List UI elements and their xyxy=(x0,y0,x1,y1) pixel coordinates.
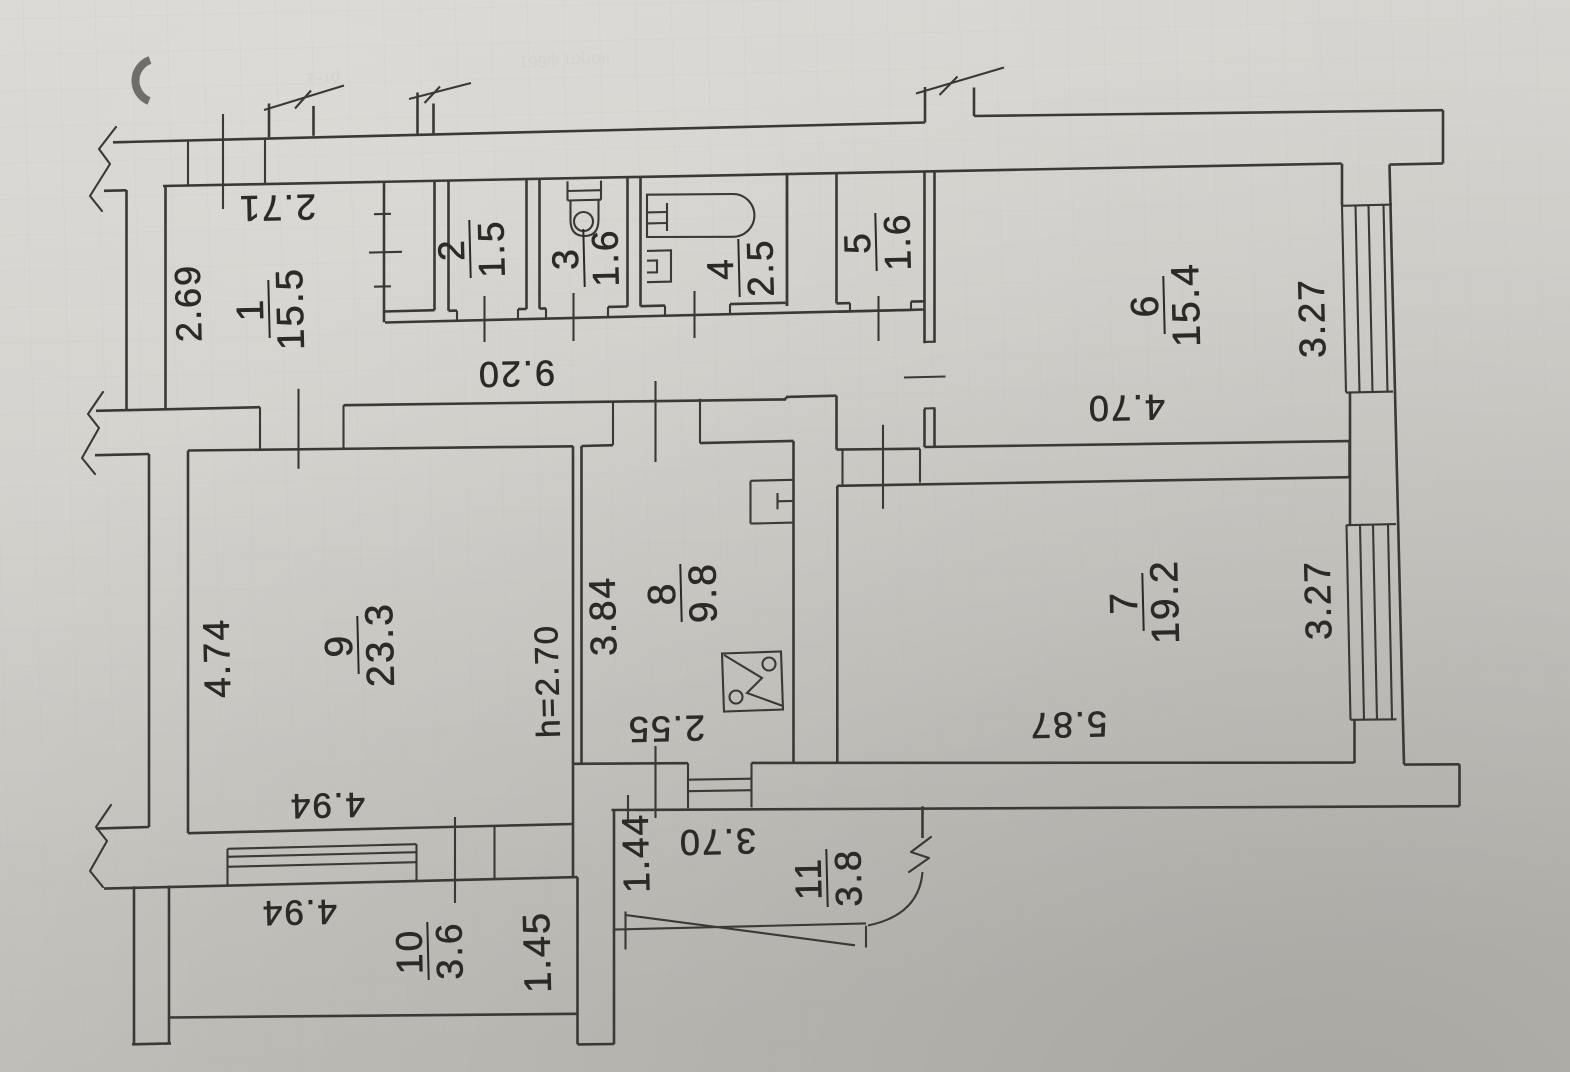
wall: balcony 10 left inner face xyxy=(168,886,171,1045)
door: room 1-room 9 jambs and tick xyxy=(260,389,344,469)
window: room 7 east window xyxy=(1347,524,1397,720)
wall: closet bottom line xyxy=(384,310,435,311)
wall: closet right line xyxy=(433,181,436,311)
svg-text:2.5: 2.5 xyxy=(739,238,781,297)
wall: room 2 right line xyxy=(525,179,528,309)
label: dimension 4.74 xyxy=(196,618,239,699)
fixture: toilet tank xyxy=(568,181,602,201)
wall: room 7 left inner face xyxy=(836,486,839,763)
svg-text:4.94: 4.94 xyxy=(260,892,337,933)
mark: faint ghost handwriting xyxy=(305,50,611,88)
svg-text:4.94: 4.94 xyxy=(288,785,365,826)
window: balcony 11 sill line xyxy=(614,923,867,929)
svg-text:23.3: 23.3 xyxy=(358,601,403,687)
svg-text:1.5: 1.5 xyxy=(470,219,512,278)
door: room 4 jambs and tick xyxy=(665,291,730,338)
wall: NE corner pilaster xyxy=(1390,110,1444,164)
wall: rooms 6/7 wall upper line (room 6 bottom) xyxy=(925,441,1350,447)
svg-text:3.27: 3.27 xyxy=(1291,278,1334,359)
fixture: bath mixer xyxy=(647,203,667,231)
wall: cap at left wall break xyxy=(96,409,166,411)
svg-text:19.2: 19.2 xyxy=(1143,558,1188,644)
break: zigzag top-left wall xyxy=(90,127,116,211)
wall: room 3 right line xyxy=(626,177,629,307)
wall: top facade outer line (right section) xyxy=(974,110,1443,116)
niche: riser tee symbol xyxy=(778,493,794,509)
svg-text:1.6: 1.6 xyxy=(584,228,626,287)
svg-text:4: 4 xyxy=(700,257,742,281)
wall: SE corner pilaster xyxy=(1404,764,1460,806)
door: room 8-balcony 11 jambs, threshold and tick xyxy=(656,746,752,818)
svg-text:9.8: 9.8 xyxy=(681,561,725,623)
wall: cap lower-left wall bottom xyxy=(96,827,149,829)
tick: dimension 4.94/1.45 xyxy=(454,817,456,903)
wall: closet left line xyxy=(383,182,386,323)
wall: room 7 right inner face below window xyxy=(1353,720,1356,763)
label: room 1 number/area xyxy=(229,266,313,351)
svg-text:4.74: 4.74 xyxy=(196,618,239,699)
label: ceiling height h=2.70 xyxy=(527,624,567,739)
window: room 9 south window xyxy=(228,844,417,885)
wall: room 4 left line xyxy=(639,177,642,307)
label: dimension 3.70 xyxy=(677,821,756,864)
fixture: kitchen stove/sink in room 8 xyxy=(722,652,783,712)
wall: room 5 door sill line xyxy=(838,310,917,312)
label: room 3 number/area xyxy=(544,228,626,288)
svg-text:чσηστ ψ661: чσηστ ψ661 xyxy=(519,50,611,71)
wall: room 8 top lower line with door opening xyxy=(582,441,794,446)
label: room 4 number/area xyxy=(699,238,781,298)
wall: NE pier at room 6 xyxy=(1341,164,1344,206)
svg-text:3.8: 3.8 xyxy=(827,848,869,907)
wall: corridor top line xyxy=(385,310,925,323)
door: corridor-room 8 jambs and tick xyxy=(613,381,700,462)
wall: top facade inner line xyxy=(163,164,1342,187)
wall: balcony 10 left wall bottom cap xyxy=(132,1042,171,1046)
label: room 5 number/area xyxy=(836,212,918,272)
wall: room 3 left line xyxy=(538,179,541,309)
label: room 2 number/area xyxy=(430,219,512,279)
wall: divider rooms 10/11 left line xyxy=(576,877,579,1044)
label: room 8 number/area xyxy=(640,561,725,624)
jamb: balcony 11 opening right xyxy=(865,926,867,948)
door: corridor-room 7 jambs and tick xyxy=(843,425,921,509)
svg-text:3.27: 3.27 xyxy=(1297,560,1340,641)
wall: rooms 9/8 wall right line (room 8 left) xyxy=(580,446,583,763)
svg-text:7: 7 xyxy=(1103,590,1147,615)
wall: top facade outer line (left section) xyxy=(113,123,925,143)
wall: room 9 bottom inner line xyxy=(188,824,573,833)
label: dimension 4.94 lower xyxy=(260,892,337,933)
wall: room 2 left line xyxy=(447,180,450,310)
label: dimension 3.84 xyxy=(582,576,625,657)
label: dimension 1.44 xyxy=(615,813,658,894)
door: room 5 jambs and tick xyxy=(850,296,911,341)
wall: room 8 bottom inner line with door opening xyxy=(573,763,1355,764)
label: dimension 1.45 xyxy=(516,911,560,994)
wall: divider rooms 10/11 right line (balcony 11 left wall) xyxy=(613,810,616,1044)
fixture: bathtub xyxy=(647,194,754,237)
break: zigzag mid-left wall xyxy=(82,392,103,474)
label: dimension 4.94 upper xyxy=(288,785,365,826)
svg-text:2: 2 xyxy=(431,238,473,262)
wall: east outer face xyxy=(1390,165,1405,765)
svg-text:ρт−ε: ρт−ε xyxy=(305,69,341,89)
wall: room 4 bottom with door opening xyxy=(641,303,786,306)
wall: room 9 left inner face xyxy=(187,451,190,834)
wall: rooms 1/9 wall upper line (west part) xyxy=(166,407,261,409)
svg-text:2.71: 2.71 xyxy=(237,187,316,230)
svg-text:h=2.70: h=2.70 xyxy=(527,624,567,739)
wall: bottom outer line / balcony 11 top xyxy=(612,806,1460,810)
tick: dimension 1.44 end xyxy=(627,795,629,822)
label: dimension 2.69 (room 1) xyxy=(167,263,210,342)
wall: SW facade outer line (balcony 10 top) xyxy=(104,877,578,889)
svg-text:4.70: 4.70 xyxy=(1086,387,1165,430)
svg-text:3.84: 3.84 xyxy=(582,576,625,657)
wall: room 8 right inner face xyxy=(792,441,795,763)
wall: room 2 bottom with door opening xyxy=(449,309,527,311)
jamb: opening right of room 9 window xyxy=(493,826,495,880)
label: dimension 3.27 (room 6) xyxy=(1291,278,1334,359)
wall: balcony 10 bottom edge xyxy=(168,1014,578,1018)
label: dimension 3.27 (room 7) xyxy=(1297,560,1340,641)
niche: duct on room 8 right wall xyxy=(751,480,794,524)
mark: dark crescent top-left xyxy=(135,60,150,101)
wall: left outer face (upper) xyxy=(104,190,127,410)
label: room 11 number/area xyxy=(787,848,869,908)
svg-text:3.70: 3.70 xyxy=(677,821,756,864)
wall: room 5 left line xyxy=(835,173,838,304)
door: balcony 11 swing arc xyxy=(868,872,923,926)
svg-text:1.45: 1.45 xyxy=(516,911,560,994)
wall stub: balcony 11 right with break xyxy=(909,806,931,872)
wall: rooms 6/7 wall lower line (room 7 top) xyxy=(837,477,1349,486)
window: room 6 east window xyxy=(1342,205,1393,393)
door: closet jamb ticks and swing tick xyxy=(369,214,402,287)
window: balcony 11 leaf diagonal xyxy=(626,915,856,945)
wall: left outer face (lower) xyxy=(148,454,151,827)
fixture: toilet bowl xyxy=(571,200,599,236)
svg-text:11: 11 xyxy=(787,856,829,900)
wall: balcony 10 left outer face xyxy=(133,886,136,1043)
wall: rooms 1/9 wall lower line xyxy=(188,446,573,450)
wall: rooms 5/6 wall left face xyxy=(923,171,926,447)
label: dimension 2.71 xyxy=(237,187,316,230)
svg-text:1.44: 1.44 xyxy=(615,813,658,894)
wall: cap lower-left wall top xyxy=(95,454,149,455)
label: room 7 number/area xyxy=(1102,558,1188,645)
label: dimension 9.20 xyxy=(476,353,555,396)
svg-text:5.87: 5.87 xyxy=(1028,704,1107,747)
svg-text:1.6: 1.6 xyxy=(876,212,918,271)
wall: room 3 bottom with door opening xyxy=(540,307,628,309)
wall: rooms 1/9 wall upper line (corridor part) xyxy=(344,396,837,406)
door: room 2 jambs and tick xyxy=(457,296,518,342)
label: dimension 2.55 xyxy=(626,708,705,751)
wall stub: balcony divider 2 with break xyxy=(409,83,471,134)
label: dimension 4.70 xyxy=(1086,387,1165,430)
wall: rooms 5/6 wall right face xyxy=(933,171,936,447)
label: room 6 number/area xyxy=(1123,261,1209,348)
label: room 10 number/area xyxy=(388,921,470,981)
svg-text:2.55: 2.55 xyxy=(626,708,705,751)
wall stub: balcony divider 1 with break xyxy=(264,86,344,138)
wall: rooms 9/8 wall left line xyxy=(572,446,575,877)
svg-text:10: 10 xyxy=(388,928,430,975)
fixture: wash basin xyxy=(647,250,671,282)
svg-text:1: 1 xyxy=(230,297,273,321)
wall: corridor east jog down xyxy=(837,396,921,450)
label: dimension 5.87 xyxy=(1028,704,1107,747)
door: room 6 jambs and tick xyxy=(904,342,946,409)
svg-text:8: 8 xyxy=(641,581,685,606)
wall: rooms 6/7 wall east end cap xyxy=(1348,441,1351,477)
svg-text:9: 9 xyxy=(318,633,362,658)
svg-text:5: 5 xyxy=(837,231,879,255)
svg-text:3.6: 3.6 xyxy=(428,921,470,980)
svg-text:15.4: 15.4 xyxy=(1164,261,1209,347)
wall: room 4 right line xyxy=(786,174,789,306)
wall stub: neighbour wall with break (top) xyxy=(916,68,1004,123)
svg-text:6: 6 xyxy=(1124,293,1168,318)
svg-text:15.5: 15.5 xyxy=(269,266,313,350)
svg-text:2.69: 2.69 xyxy=(167,263,210,342)
window marks: room 1 top wall xyxy=(188,114,265,209)
svg-text:3: 3 xyxy=(545,247,587,271)
wall: room 1 left inner face xyxy=(164,186,167,409)
wall: east wall inner face between windows xyxy=(1349,392,1352,524)
svg-text:9.20: 9.20 xyxy=(476,353,555,396)
label: room 9 number/area xyxy=(317,601,403,688)
door: room 3 jambs and tick xyxy=(546,293,608,341)
jamb: balcony 11 opening left xyxy=(624,912,626,950)
wall: divider rooms 10/11 bottom cap xyxy=(578,1043,615,1046)
break: zigzag bottom-left wall xyxy=(90,805,111,887)
wall: room 5 bottom with door opening xyxy=(837,301,925,303)
